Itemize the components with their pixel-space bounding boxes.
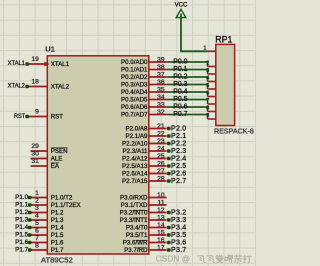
svg-text:3: 3 <box>35 205 39 212</box>
svg-text:5: 5 <box>206 83 209 89</box>
pin 18 XTAL2 <box>27 79 70 91</box>
pin 25 P2.4/A12 <box>122 153 167 163</box>
resistor pack RP1 body <box>216 44 235 125</box>
node P1.4 terminal <box>15 224 31 231</box>
svg-text:P0.7: P0.7 <box>173 111 187 118</box>
svg-text:7: 7 <box>206 98 209 104</box>
RP1 pin 7 <box>206 98 216 104</box>
svg-text:P1.2: P1.2 <box>51 210 64 217</box>
svg-text:XTAL2: XTAL2 <box>51 84 70 91</box>
svg-text:RESPACK-8: RESPACK-8 <box>214 129 254 136</box>
RP1 pin 1 <box>203 45 215 51</box>
net label P0.0 <box>173 58 187 65</box>
RP1 pin 5 <box>206 83 216 89</box>
svg-text:P2.1/A9: P2.1/A9 <box>125 133 148 140</box>
RP1 pin 2 <box>206 61 216 67</box>
svg-text:ALE: ALE <box>51 156 63 163</box>
svg-text:P0.5: P0.5 <box>173 96 187 103</box>
svg-text:3: 3 <box>206 68 209 74</box>
node P1.5 terminal <box>15 232 31 239</box>
svg-text:P0.1/AD1: P0.1/AD1 <box>121 67 148 74</box>
pin 12 P3.2/INT0 <box>120 207 167 217</box>
node P1.7 terminal <box>15 247 31 254</box>
pin 26 P2.5/A13 <box>122 160 167 170</box>
svg-text:P0.0/AD0: P0.0/AD0 <box>121 59 148 66</box>
svg-text:P0.4: P0.4 <box>173 88 187 95</box>
svg-text:PSEN: PSEN <box>51 148 68 155</box>
svg-text:P3.6/WR: P3.6/WR <box>123 240 148 247</box>
svg-text:P2.5/A13: P2.5/A13 <box>122 163 148 170</box>
svg-text:P1.7: P1.7 <box>15 247 29 254</box>
wire net P0.7 <box>167 114 208 119</box>
svg-text:2: 2 <box>206 61 209 67</box>
svg-text:P2.4/A12: P2.4/A12 <box>122 156 148 163</box>
svg-text:18: 18 <box>31 79 39 86</box>
svg-text:P2.0/A8: P2.0/A8 <box>125 126 148 133</box>
svg-text:P1.4: P1.4 <box>15 224 29 231</box>
RP1 pin 3 <box>206 68 216 74</box>
pin 5 P1.4 <box>30 220 64 232</box>
svg-text:P0.5/AD5: P0.5/AD5 <box>121 97 148 104</box>
svg-text:P0.7/AD7: P0.7/AD7 <box>121 112 148 119</box>
svg-text:P3.3/INT1: P3.3/INT1 <box>120 217 148 224</box>
svg-text:9: 9 <box>35 109 39 116</box>
svg-text:P2.2/A10: P2.2/A10 <box>122 141 148 148</box>
svg-text:P1.5: P1.5 <box>15 232 29 239</box>
node P1.0 terminal <box>15 194 31 201</box>
svg-text:P1.6: P1.6 <box>15 239 29 246</box>
svg-text:P1.0/T2: P1.0/T2 <box>51 195 73 202</box>
pin 34 P0.5/AD5 <box>121 94 167 104</box>
node P3.6 terminal <box>167 239 186 247</box>
node P2.2 terminal <box>167 140 186 148</box>
pin 29 PSEN <box>31 143 68 155</box>
net label P0.2 <box>173 73 187 80</box>
node P2.0 terminal <box>167 125 186 133</box>
pin 6 P1.5 <box>30 227 64 239</box>
svg-text:19: 19 <box>31 56 39 63</box>
node XTAL1 terminal <box>8 60 29 67</box>
pin 23 P2.2/A10 <box>122 138 167 148</box>
svg-text:P2.7/A15: P2.7/A15 <box>122 178 148 185</box>
net label P0.4 <box>173 88 187 95</box>
node P3.2 terminal <box>167 209 186 217</box>
svg-text:8: 8 <box>206 106 209 112</box>
wire net P0.1 <box>167 69 208 74</box>
svg-text:P1.1/T2EX: P1.1/T2EX <box>51 202 81 209</box>
microcontroller U1 body <box>47 56 149 254</box>
svg-text:P0.6: P0.6 <box>173 103 187 110</box>
svg-text:2: 2 <box>35 197 39 204</box>
node P1.3 terminal <box>15 217 31 224</box>
pin 13 P3.3/INT1 <box>120 214 167 224</box>
svg-text:P1.5: P1.5 <box>51 232 64 239</box>
svg-text:VCC: VCC <box>175 1 188 8</box>
pin 32 P0.7/AD7 <box>121 109 167 119</box>
node P3.4 terminal <box>167 224 186 232</box>
svg-text:P3.7/RD: P3.7/RD <box>124 247 148 254</box>
svg-text:P3.5/T1: P3.5/T1 <box>126 232 148 239</box>
pin 2 P1.1/T2EX <box>30 197 81 209</box>
pin 22 P2.1/A9 <box>125 130 166 140</box>
net label P0.1 <box>173 66 187 73</box>
svg-text:31: 31 <box>31 158 39 165</box>
pin 21 P2.0/A8 <box>125 123 166 133</box>
svg-text:XTAL1: XTAL1 <box>8 60 26 67</box>
svg-text:RST: RST <box>14 113 25 120</box>
node P2.5 terminal <box>167 162 186 170</box>
pin 11 P3.1/TXD <box>121 199 167 209</box>
svg-text:P1.2: P1.2 <box>15 209 29 216</box>
svg-text:5: 5 <box>35 220 39 227</box>
net label P0.3 <box>173 81 187 88</box>
svg-text:4: 4 <box>206 76 209 82</box>
svg-text:P2.3/A11: P2.3/A11 <box>123 148 149 155</box>
pin 33 P0.6/AD6 <box>121 101 167 111</box>
node XTAL2 terminal <box>8 82 29 89</box>
node P3.7 terminal <box>167 246 186 254</box>
node P3.3 terminal <box>167 216 186 224</box>
svg-text:P0.4/AD4: P0.4/AD4 <box>121 89 148 96</box>
svg-text:P1.4: P1.4 <box>51 225 64 232</box>
pin 17 P3.7/RD <box>124 244 166 254</box>
reference label RP1 <box>215 34 232 44</box>
svg-text:P0.6/AD6: P0.6/AD6 <box>121 104 148 111</box>
node P1.6 terminal <box>15 239 31 246</box>
svg-text:P1.7: P1.7 <box>51 247 64 254</box>
pin 24 P2.3/A11 <box>123 145 167 155</box>
value label AT89C52 <box>41 255 73 264</box>
svg-text:P3.1/TXD: P3.1/TXD <box>121 202 148 209</box>
pin 8 P1.7 <box>30 242 64 254</box>
pin 3 P1.2 <box>30 205 64 217</box>
svg-text:P3.2/INT0: P3.2/INT0 <box>120 210 148 217</box>
wire net P0.5 <box>167 99 208 104</box>
net label P0.6 <box>173 103 187 110</box>
svg-text:7: 7 <box>35 235 39 242</box>
pin 37 P0.2/AD2 <box>121 71 167 81</box>
node P1.1 terminal <box>15 202 31 209</box>
pin 38 P0.1/AD1 <box>121 64 167 74</box>
node P2.1 terminal <box>167 132 186 140</box>
pin 35 P0.4/AD4 <box>121 86 167 96</box>
svg-text:P2.6/A14: P2.6/A14 <box>122 171 148 178</box>
pin 16 P3.6/WR <box>123 237 167 247</box>
node P2.3 terminal <box>167 147 186 155</box>
wire net P0.2 <box>167 76 208 81</box>
svg-text:RP1: RP1 <box>215 34 232 44</box>
pin 15 P3.5/T1 <box>126 229 167 239</box>
svg-text:P0.3: P0.3 <box>173 81 187 88</box>
pin 39 P0.0/AD0 <box>121 56 167 66</box>
svg-text:P0.2/AD2: P0.2/AD2 <box>121 74 148 81</box>
svg-text:P1.1: P1.1 <box>15 202 29 209</box>
RP1 pin 8 <box>206 106 216 112</box>
pin 31 EA <box>31 158 60 170</box>
pin 4 P1.3 <box>30 212 64 224</box>
net label P0.7 <box>173 111 187 118</box>
svg-text:P1.6: P1.6 <box>51 240 64 247</box>
svg-text:RST: RST <box>51 114 64 121</box>
pin 7 P1.6 <box>30 235 64 247</box>
svg-text:P2.7: P2.7 <box>171 177 186 185</box>
svg-text:P1.3: P1.3 <box>15 217 29 224</box>
svg-text:P3.4/T0: P3.4/T0 <box>126 225 148 232</box>
svg-text:P3.0/RXD: P3.0/RXD <box>120 195 148 202</box>
svg-text:29: 29 <box>31 143 39 150</box>
RP1 pin 6 <box>206 91 216 97</box>
svg-text:P0.3/AD3: P0.3/AD3 <box>121 82 148 89</box>
node P2.7 terminal <box>167 177 186 185</box>
pin 14 P3.4/T0 <box>126 222 167 232</box>
svg-text:1: 1 <box>35 190 39 197</box>
pin 19 XTAL1 <box>27 56 70 68</box>
wire net P0.6 <box>167 106 208 111</box>
wire VCC to RP1 pin 1 <box>181 14 208 52</box>
power symbol VCC <box>175 1 188 17</box>
watermark <box>156 253 252 263</box>
svg-text:XTAL1: XTAL1 <box>51 61 70 68</box>
svg-text:U1: U1 <box>45 45 55 54</box>
svg-text:4: 4 <box>35 212 39 219</box>
reference label U1 <box>45 45 55 54</box>
node P3.5 terminal <box>167 231 186 239</box>
svg-text:6: 6 <box>35 227 39 234</box>
node P1.2 terminal <box>15 209 31 216</box>
node P2.4 terminal <box>167 155 186 163</box>
pin 28 P2.7/A15 <box>122 175 167 185</box>
pin 9 RST <box>27 109 63 121</box>
RP1 pin 4 <box>206 76 216 82</box>
net label P0.5 <box>173 96 187 103</box>
RP1 pin 9 <box>206 113 216 119</box>
svg-text:P0.0: P0.0 <box>173 58 187 65</box>
svg-text:8: 8 <box>35 242 39 249</box>
svg-text:9: 9 <box>206 113 209 119</box>
wire net P0.3 <box>167 84 208 89</box>
pin 30 ALE <box>31 151 63 163</box>
svg-text:P1.0: P1.0 <box>15 194 29 201</box>
svg-text:6: 6 <box>206 91 209 97</box>
pin 36 P0.3/AD3 <box>121 79 167 89</box>
pin 10 P3.0/RXD <box>120 192 167 202</box>
svg-text:EA: EA <box>51 163 60 170</box>
node RST terminal <box>14 113 29 120</box>
wire net P0.0 <box>167 61 208 66</box>
pin 1 P1.0/T2 <box>30 190 73 202</box>
svg-text:P1.3: P1.3 <box>51 217 64 224</box>
svg-text:CSDN @: CSDN @ <box>156 253 190 263</box>
wire net P0.4 <box>167 91 208 96</box>
value label RESPACK-8 <box>214 129 254 136</box>
svg-text:AT89C52: AT89C52 <box>41 255 73 264</box>
svg-text:XTAL2: XTAL2 <box>8 82 26 89</box>
node P2.6 terminal <box>167 170 186 178</box>
svg-text:P0.2: P0.2 <box>173 73 187 80</box>
svg-text:30: 30 <box>31 151 39 158</box>
svg-text:P0.1: P0.1 <box>173 66 187 73</box>
pin 27 P2.6/A14 <box>122 168 167 178</box>
